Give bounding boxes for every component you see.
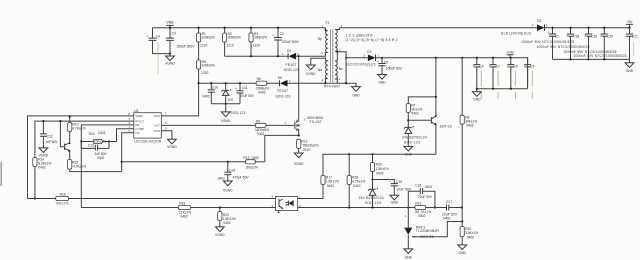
resistor R3 200Kx2% 1210 — [249, 28, 267, 57]
svg-text:VGND: VGND — [306, 72, 316, 76]
svg-text:D4: D4 — [287, 49, 291, 53]
transformer T1 RT4-0807 — [318, 21, 398, 88]
svg-text:VGND: VGND — [294, 162, 304, 166]
svg-text:1210: 1210 — [200, 43, 208, 47]
wire D3 to +5V — [545, 27, 630, 29]
svg-text:0402: 0402 — [353, 184, 361, 188]
junction R2 top — [224, 27, 226, 29]
junction C19 top — [587, 27, 589, 29]
svg-text:47uF 50V: 47uF 50V — [240, 94, 255, 98]
resistor R23 1.5K 0402 — [218, 208, 236, 227]
svg-text:24V BZT52C24: 24V BZT52C24 — [359, 196, 384, 200]
svg-text:+5V: +5V — [627, 20, 634, 24]
svg-text:VBB: VBB — [166, 21, 174, 25]
svg-text:2R2±1%: 2R2±1% — [246, 165, 258, 169]
ground VGND under C14 — [223, 181, 233, 193]
capacitor C18 — [567, 28, 580, 60]
wire +24V rail — [382, 58, 528, 89]
svg-text:22uF 50V: 22uF 50V — [418, 195, 433, 199]
wire TL431 ref — [412, 222, 462, 237]
junction C11 top — [239, 82, 241, 84]
svg-text:4.7K±1%: 4.7K±1% — [72, 126, 85, 130]
capacitor C10 0402 — [202, 83, 218, 104]
svg-text:C10: C10 — [212, 86, 218, 90]
junction divider mid — [461, 206, 463, 208]
junction Q3 collector column — [435, 57, 437, 59]
svg-text:U1: U1 — [134, 109, 139, 113]
junction R18 bottom — [348, 206, 350, 208]
svg-text:VGND: VGND — [215, 233, 225, 237]
capacitor C20 — [600, 28, 613, 60]
svg-text:1.5K±1%: 1.5K±1% — [223, 217, 236, 221]
svg-text:2010: 2010 — [303, 148, 311, 152]
svg-text:1nF 50V: 1nF 50V — [45, 140, 58, 144]
svg-text:R11: R11 — [89, 132, 95, 136]
wire VDD pin7 — [161, 83, 198, 116]
junction R18 top — [348, 153, 350, 155]
wire top rail VBB — [153, 27, 326, 29]
svg-text:+: + — [377, 60, 379, 64]
junction C16 left — [407, 206, 409, 208]
wire output cap bank bottom rail — [553, 58, 630, 60]
svg-text:C15: C15 — [396, 180, 402, 184]
svg-text:+: + — [235, 87, 237, 91]
svg-text:0402: 0402 — [425, 185, 433, 189]
svg-text:VGND: VGND — [167, 145, 177, 149]
svg-text:C3: C3 — [172, 32, 176, 36]
resistor R16 0R 0402 — [56, 192, 69, 205]
junction R3 top — [250, 27, 252, 29]
junction FB node — [80, 140, 82, 142]
junction drain node — [298, 55, 300, 57]
svg-text:Ns: Ns — [339, 67, 343, 71]
diode D4 FR107 SOD-123 — [282, 49, 299, 72]
svg-text:1210: 1210 — [201, 71, 209, 75]
capacitor C2 470uF 300V — [272, 28, 299, 57]
svg-text:24V BZT52C24: 24V BZT52C24 — [402, 136, 427, 140]
capacitor C4 — [146, 28, 170, 74]
transistor Q2 — [60, 121, 70, 159]
junction D2 tap — [345, 57, 347, 59]
svg-text:D6: D6 — [278, 76, 282, 80]
ground GND under R22 — [458, 245, 467, 255]
junction CS node — [121, 161, 123, 163]
capacitor C12 1nF 50V — [40, 121, 58, 148]
ground VGND under C12 — [39, 148, 49, 158]
junction C12 top — [42, 120, 44, 122]
svg-text:0402: 0402 — [258, 91, 266, 95]
resistor R18 4.7K 0402 — [347, 154, 365, 207]
resistor R9 15Oh 0402 — [255, 119, 287, 136]
svg-text:FR107: FR107 — [277, 89, 288, 93]
junction R3 bottom — [250, 55, 252, 57]
svg-text:SOD-123: SOD-123 — [365, 201, 381, 205]
svg-text:GND: GND — [626, 69, 634, 73]
svg-text:0402: 0402 — [443, 216, 451, 220]
edge artifact line — [0, 162, 2, 186]
capacitor C1 1000uF 50V — [547, 28, 559, 60]
capacitor C19 — [585, 28, 598, 60]
svg-text:GND: GND — [405, 255, 413, 259]
wire output cap bank bottom — [477, 88, 528, 90]
ground VGND under R13 — [294, 153, 304, 166]
svg-text:VDD: VDD — [154, 114, 161, 118]
wire regulated sense rail — [323, 154, 436, 175]
svg-text:T1: T1 — [325, 21, 329, 25]
svg-text:C20: C20 — [607, 35, 613, 39]
diode D2 SLD120V06(S)/3 — [346, 50, 383, 66]
svg-text:R12: R12 — [243, 156, 249, 160]
wire COMP pin1 — [109, 129, 134, 142]
svg-text:0402: 0402 — [180, 214, 188, 218]
svg-text:C5: C5 — [384, 60, 388, 64]
junction R1 top — [198, 27, 200, 29]
svg-text:Np: Np — [318, 37, 322, 41]
junction C18 top — [569, 27, 571, 29]
ground GND secondary — [352, 87, 361, 98]
junction R11 right — [108, 140, 110, 142]
junction C7 top — [492, 57, 494, 59]
resistor R13 shunt — [297, 139, 319, 153]
svg-text:D3: D3 — [537, 19, 541, 23]
svg-text:C13: C13 — [88, 144, 94, 148]
junction C19 bottom — [587, 58, 589, 60]
svg-text:1000uF 50V NTCX/1000/35/E25: 1000uF 50V NTCX/1000/35/E25 — [574, 54, 627, 58]
svg-text:0402: 0402 — [202, 94, 210, 98]
svg-text:GND: GND — [153, 129, 161, 133]
ground VGND aux winding top — [306, 58, 325, 76]
svg-text:0402: 0402 — [411, 112, 419, 116]
resistor R6 0402 — [256, 77, 269, 94]
resistor R22 3.6K 0402 — [460, 227, 478, 245]
ground GND under D7 — [404, 146, 413, 156]
wire aux rail — [199, 82, 280, 84]
junction C1 top — [551, 27, 553, 29]
wire top rail to D3 — [339, 27, 537, 29]
resistor R19 1.1K 0402 — [178, 201, 191, 218]
ground VGND aux — [221, 104, 246, 123]
svg-text:GND: GND — [378, 81, 386, 85]
svg-text:SOT-23: SOT-23 — [420, 235, 433, 239]
junction R20 top — [371, 153, 373, 155]
resistor R15 4.7Kx1% — [68, 160, 122, 172]
svg-text:10uF 50V: 10uF 50V — [396, 187, 412, 191]
capacitor C17 10uF 0402 — [442, 200, 462, 221]
svg-text:RT4-0807: RT4-0807 — [324, 85, 340, 89]
svg-text:C1: C1 — [555, 35, 559, 39]
svg-text:0402: 0402 — [376, 171, 384, 175]
svg-text:+24V: +24V — [506, 51, 515, 55]
svg-text:C9: C9 — [530, 64, 534, 68]
wire opto emitter net — [81, 207, 275, 209]
svg-text:470pF 50V: 470pF 50V — [233, 176, 250, 180]
value labels output capacitors — [521, 40, 627, 58]
shunt regulator REF1 TL431BIDBZR — [404, 208, 439, 249]
svg-text:C14: C14 — [229, 168, 235, 172]
junction R23 top — [219, 206, 221, 208]
junction R8 column — [461, 57, 463, 59]
svg-text:1210: 1210 — [226, 43, 234, 47]
junction C18 bottom — [569, 58, 571, 60]
junction C2 bottom — [277, 55, 279, 57]
junction Q1 source — [298, 134, 300, 136]
ground GND under TL431 — [404, 249, 413, 260]
optocoupler U2 — [271, 194, 301, 213]
junction aux ground tap — [225, 103, 227, 105]
svg-text:GND: GND — [473, 98, 481, 102]
junction R10 top — [69, 115, 71, 117]
T1 core — [331, 29, 333, 82]
wire RT/CT pin4 — [35, 121, 134, 157]
junction C6 top — [476, 57, 478, 59]
junction C20 bottom — [603, 58, 605, 60]
svg-text:0R±1%: 0R±1% — [56, 202, 68, 206]
svg-text:100Kx2%: 100Kx2% — [202, 64, 215, 68]
junction R14 bottom — [34, 197, 36, 199]
ground VGND under R23 — [215, 227, 225, 237]
diode D6 FR107 SOD-123 — [275, 76, 337, 99]
svg-text:OUT: OUT — [154, 124, 161, 128]
capacitor C11 47uF 50V — [235, 83, 255, 104]
T1 aux winding Na — [325, 61, 327, 84]
svg-text:VREF: VREF — [135, 114, 143, 118]
svg-text:GND: GND — [459, 251, 467, 255]
resistor R5 100Kx2% 1210 — [197, 60, 215, 83]
capacitor C9 — [524, 58, 535, 99]
capacitor C4 output bank — [473, 58, 484, 99]
junction REF tap — [461, 220, 463, 222]
svg-text:D2: D2 — [367, 50, 371, 54]
svg-text:1000uF 50V NTCX/1000/35/E25: 1000uF 50V NTCX/1000/35/E25 — [521, 40, 574, 44]
svg-text:200Kx2%: 200Kx2% — [254, 36, 267, 40]
wire opto collector net — [28, 198, 276, 200]
svg-text:C16: C16 — [415, 184, 421, 188]
svg-text:R6: R6 — [257, 77, 261, 81]
junction Q2 base tap — [59, 120, 61, 122]
svg-text:C4: C4 — [156, 34, 160, 38]
svg-text:SOD-123: SOD-123 — [404, 141, 420, 145]
ground GND under C5 — [378, 75, 387, 85]
svg-text:Na: Na — [318, 68, 322, 72]
svg-text:R16: R16 — [60, 192, 66, 196]
svg-text:0402: 0402 — [218, 176, 226, 180]
svg-text:150uF 300V: 150uF 300V — [176, 44, 195, 48]
svg-text:CS: CS — [135, 131, 139, 135]
svg-text:C12: C12 — [47, 134, 53, 138]
svg-text:0402: 0402 — [257, 132, 265, 136]
wire drain vertical — [298, 56, 300, 121]
svg-text:TO-247: TO-247 — [310, 120, 322, 124]
ground VGND under C3 — [165, 54, 175, 66]
junction R7 tap — [435, 96, 437, 98]
svg-text:0402: 0402 — [223, 221, 231, 225]
capacitor C3 150uF 300V — [166, 28, 195, 54]
resistor R10 4.7Kx1% — [68, 117, 86, 143]
junction secondary windings — [336, 51, 338, 53]
junction secondary bottom — [345, 82, 347, 84]
svg-text:100Kx2%: 100Kx2% — [202, 36, 215, 40]
junction R20 bottom — [371, 178, 373, 180]
junction C8 bottom — [510, 88, 512, 90]
junction +24V tap — [510, 57, 512, 59]
wire drain node to primary pin2 — [299, 53, 326, 57]
svg-text:VGND: VGND — [165, 61, 175, 65]
svg-text:200Kx2%: 200Kx2% — [228, 36, 241, 40]
svg-text:1210: 1210 — [253, 43, 261, 47]
resistor R14 8.2Kx1% 0402 — [33, 157, 51, 198]
svg-text:1:2 2.3dB±15%: 1:2 2.3dB±15% — [346, 33, 373, 37]
junction C7 bottom — [492, 88, 494, 90]
ic U1 UCC28C42QDR — [128, 109, 167, 144]
svg-text:R9: R9 — [256, 119, 260, 123]
junction C16 right — [434, 206, 436, 208]
wire D2 anode — [346, 57, 368, 59]
power port +5V — [626, 20, 633, 28]
resistor R12 2R2 0402 — [243, 156, 264, 170]
wire opto pin2 — [297, 207, 299, 209]
resistor R21 88.7K 0402 — [415, 201, 447, 218]
svg-text:+: + — [146, 35, 148, 39]
capacitor C16 bridge 0402 — [408, 184, 435, 208]
junction C2 top — [277, 27, 279, 29]
svg-text:C7: C7 — [496, 64, 500, 68]
svg-text:C21: C21 — [632, 35, 638, 39]
svg-text:1.5K±1%: 1.5K±1% — [376, 167, 389, 171]
svg-text:GND: GND — [352, 93, 360, 97]
capacitor C13 1nF 50V 0402 — [81, 142, 109, 161]
junction C5 top — [381, 57, 383, 59]
svg-text:C17: C17 — [446, 200, 452, 204]
wire R7 tap — [408, 58, 436, 116]
power port +24V — [506, 51, 515, 58]
svg-text:FR107: FR107 — [286, 63, 297, 67]
svg-text:C11: C11 — [242, 86, 248, 90]
svg-text:0402: 0402 — [38, 166, 46, 170]
junction aux winding pin4 — [324, 82, 326, 84]
wire VREF pin8 — [28, 116, 134, 199]
resistor R11 10Kx1% 0402 — [81, 131, 109, 143]
svg-text:SOD-123: SOD-123 — [284, 68, 299, 72]
power port VBB — [166, 21, 174, 28]
svg-text:0402: 0402 — [327, 184, 335, 188]
svg-text:0402: 0402 — [252, 156, 260, 160]
wire CS node — [122, 161, 246, 163]
svg-text:(1~2),(3~4),(5~6),(7~8) 5.5 H: (1~2),(3~4),(5~6),(7~8) 5.5 H 2 — [346, 38, 398, 42]
svg-text:SOD-123: SOD-123 — [275, 94, 290, 98]
ground GND under C15 — [390, 195, 399, 204]
junction C14 top — [227, 161, 229, 163]
junction VDD node — [198, 82, 200, 84]
svg-text:100uF 50V: 100uF 50V — [386, 66, 403, 70]
junction D5 top — [225, 82, 227, 84]
svg-text:C19: C19 — [591, 35, 597, 39]
svg-text:SOD-123: SOD-123 — [230, 111, 245, 115]
resistor R2 200Kx2% 1210 — [223, 28, 241, 57]
svg-text:4.7K±1%: 4.7K±1% — [73, 165, 86, 169]
zener diode D7 24V BZT52C24 — [402, 126, 427, 146]
svg-text:C2: C2 — [280, 32, 284, 36]
capacitor C14 470pF 50V 0402 — [218, 162, 250, 181]
junction C3 bottom — [169, 53, 171, 55]
wire secondary bottom — [337, 83, 356, 86]
svg-text:+: + — [389, 180, 391, 184]
svg-text:+: + — [547, 30, 549, 34]
svg-text:0402: 0402 — [418, 214, 426, 218]
resistor R1 100Kx2% 1210 — [197, 28, 215, 60]
svg-text:0402: 0402 — [97, 156, 105, 160]
svg-text:UCC28C42QDR: UCC28C42QDR — [134, 140, 162, 144]
junction +5V — [628, 27, 630, 29]
svg-text:C8: C8 — [513, 64, 517, 68]
svg-text:VGND: VGND — [221, 119, 231, 123]
capacitor C15 10uF 50V — [389, 180, 412, 196]
junction D8 bottom — [371, 206, 373, 208]
svg-text:+: + — [272, 34, 274, 38]
junction C20 top — [603, 27, 605, 29]
svg-text:SLD120V06(S)/3: SLD120V06(S)/3 — [346, 62, 376, 66]
svg-text:R21: R21 — [415, 201, 421, 205]
wire secondary link — [337, 52, 346, 83]
svg-text:1000uF 50V NTCX/1000/35/E25: 1000uF 50V NTCX/1000/35/E25 — [537, 45, 590, 49]
zener diode D8 24V BZT52C24 — [359, 180, 384, 208]
svg-text:VGND: VGND — [223, 189, 233, 193]
svg-text:C4: C4 — [479, 64, 483, 68]
mosfet Q1 TO-247 — [295, 116, 324, 136]
wire snubber node — [225, 55, 289, 57]
wire CS pin3 — [122, 133, 134, 172]
zener diode D5 — [221, 83, 233, 104]
capacitor C5 100uF 50V — [377, 58, 403, 75]
T1 secondary lower winding Ns — [335, 61, 337, 83]
junction C3 top — [169, 27, 171, 29]
svg-text:GND: GND — [391, 200, 399, 204]
transistor Q3 SOT-23 — [408, 115, 451, 154]
svg-text:SLD120V06(S)/3: SLD120V06(S)/3 — [501, 32, 531, 36]
wire FB pin2 — [81, 125, 134, 208]
svg-text:470uF 300V: 470uF 300V — [282, 40, 300, 44]
wire feedback lower rail — [298, 207, 415, 209]
ground VGND ic pin5 — [161, 131, 177, 149]
wire OUT pin6 gate drive — [161, 124, 295, 126]
capacitor C7 — [489, 58, 500, 99]
wire C15 C16 top — [373, 180, 395, 184]
resistor R20 1.5K 0402 — [370, 154, 388, 179]
ground GND cap bank — [472, 88, 481, 102]
resistor R7 2K 0402 — [406, 104, 422, 128]
svg-text:C18: C18 — [573, 35, 579, 39]
svg-text:10K±1%: 10K±1% — [94, 140, 106, 144]
svg-text:0402: 0402 — [466, 124, 474, 128]
resistor R17 1.5K 0402 — [298, 176, 339, 199]
diode D3 SLD120V06(S)/3 — [501, 19, 548, 36]
wire source to CS filter — [265, 135, 299, 161]
svg-text:12V: 12V — [227, 98, 234, 102]
wire aux cap bottoms — [211, 103, 240, 105]
junction Q3 base node — [407, 119, 409, 121]
capacitor C21 — [626, 28, 638, 60]
svg-text:0402: 0402 — [98, 131, 106, 135]
T1 primary winding Np — [325, 28, 327, 57]
svg-text:0402: 0402 — [467, 235, 475, 239]
svg-text:TL431BIDBZR: TL431BIDBZR — [416, 229, 440, 233]
ground GND under C21 — [625, 59, 634, 72]
capacitor C8 — [507, 58, 518, 99]
svg-text:SOT-23: SOT-23 — [440, 125, 452, 129]
junction C10 top — [210, 82, 212, 84]
svg-text:R19: R19 — [179, 201, 185, 205]
resistor R8 30K 0402 divider top — [460, 58, 477, 227]
T1 secondary upper winding — [335, 28, 339, 52]
